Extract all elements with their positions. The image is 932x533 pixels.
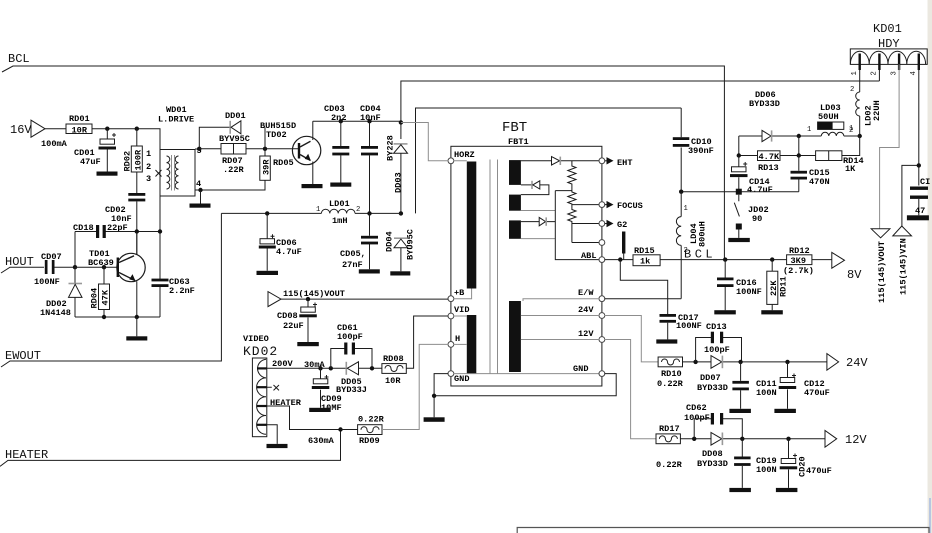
capacitor FBT internal bar xyxy=(622,232,625,254)
svg-text:24V: 24V xyxy=(846,356,868,370)
ground KD02 xyxy=(267,444,288,448)
svg-text:1N4148: 1N4148 xyxy=(40,308,71,318)
svg-text:1K: 1K xyxy=(845,164,856,174)
svg-text:47K: 47K xyxy=(101,289,111,305)
node junction CD11 xyxy=(738,360,742,364)
svg-text:LD01: LD01 xyxy=(329,199,350,209)
svg-text:22K: 22K xyxy=(769,280,779,296)
winding FBT EHT segment 1 xyxy=(509,160,521,185)
ground WD01 pin4 xyxy=(200,190,202,204)
svg-text:RD11: RD11 xyxy=(779,276,789,297)
svg-text:CD07: CD07 xyxy=(41,252,62,262)
node junction CD12 xyxy=(785,360,789,364)
svg-text:RD04: RD04 xyxy=(90,288,100,309)
svg-text:100NF: 100NF xyxy=(676,321,702,331)
svg-text:4: 4 xyxy=(910,71,918,75)
winding FBT EHT segment 2 xyxy=(509,195,521,211)
resistor RD01 xyxy=(66,124,92,134)
wire G2 tap xyxy=(572,223,602,225)
svg-text:.22R: .22R xyxy=(223,165,244,175)
node junction RD13/CD14 xyxy=(737,153,741,157)
svg-text:47uF: 47uF xyxy=(80,157,101,167)
ground edge cap xyxy=(907,215,929,220)
svg-text:BYD33D: BYD33D xyxy=(697,459,728,469)
capacitor CD06 xyxy=(267,213,274,270)
svg-text:4: 4 xyxy=(196,179,201,189)
node junction TD02 base xyxy=(263,147,267,151)
wire GND internal xyxy=(454,373,600,375)
jumper JD02 xyxy=(736,189,742,195)
resistor RD10 (fusible) xyxy=(658,357,682,367)
svg-text:ABL: ABL xyxy=(581,251,596,261)
node junction CD62 left xyxy=(692,437,696,441)
node junction HOUT/CD18/DD02 xyxy=(73,265,77,269)
svg-text:1: 1 xyxy=(146,149,151,159)
node EHT pin xyxy=(599,158,605,164)
svg-text:BYU95C: BYU95C xyxy=(406,229,416,260)
node junction CD20 xyxy=(786,437,790,441)
svg-text:RD17: RD17 xyxy=(659,424,680,434)
svg-text:2: 2 xyxy=(850,86,854,94)
svg-text:470N: 470N xyxy=(809,177,830,187)
svg-text:CD62: CD62 xyxy=(686,403,707,413)
wire top node rail xyxy=(313,120,401,122)
wire pin5 to RD07 xyxy=(199,148,298,150)
node junction RD13/CD15 xyxy=(797,153,801,157)
svg-text:RD02: RD02 xyxy=(123,151,133,172)
svg-text:470uF: 470uF xyxy=(804,388,830,398)
node junction RD04 top xyxy=(102,265,106,269)
svg-text:115(145)VOUT: 115(145)VOUT xyxy=(877,241,887,303)
svg-text:1mH: 1mH xyxy=(332,216,347,226)
node junction LD02/LD03/RD14 xyxy=(858,134,862,138)
node junction emitter/ground xyxy=(135,315,139,319)
capacitor CD09 xyxy=(321,368,329,408)
node 16V input xyxy=(31,120,45,137)
node junction RD04 bottom xyxy=(102,315,106,319)
svg-text:8V: 8V xyxy=(847,268,862,282)
diode DD05 BYD33J xyxy=(345,362,347,375)
wire TD02 emitter xyxy=(312,162,314,185)
ground TD01 xyxy=(136,317,138,336)
capacitor CD01 xyxy=(106,129,108,139)
resistor RD05 xyxy=(260,156,271,180)
svg-text:390nF: 390nF xyxy=(688,146,714,156)
capacitor CD08 xyxy=(308,299,317,342)
wire LD01 node riser xyxy=(416,108,682,213)
node junction CD09 xyxy=(318,366,322,370)
node 115(145)VIN xyxy=(893,226,912,236)
ground CD12 xyxy=(774,409,796,413)
resistor FBT focus divider xyxy=(568,161,576,243)
svg-text:+B: +B xyxy=(454,288,464,298)
svg-text:RD01: RD01 xyxy=(69,114,90,124)
ground CD17 xyxy=(656,339,677,343)
capacitor CD20 xyxy=(789,439,798,488)
svg-text:BC639: BC639 xyxy=(88,258,114,268)
svg-text:HORZ: HORZ xyxy=(454,150,475,160)
wire TD01 emitter xyxy=(136,281,138,317)
svg-text:100pF: 100pF xyxy=(704,345,730,355)
svg-text:BYD33D: BYD33D xyxy=(697,383,728,393)
node FOCUS pin xyxy=(599,202,605,208)
wire KD01 pin2 stub xyxy=(878,70,880,81)
capacitor CD16 xyxy=(724,260,726,311)
svg-text:115(145)VOUT: 115(145)VOUT xyxy=(283,289,345,299)
ground RD11 xyxy=(761,310,783,314)
svg-text:BYD33J: BYD33J xyxy=(336,385,367,395)
wire VID internal xyxy=(454,315,467,317)
ground CD11 xyxy=(729,409,751,413)
svg-text:4.7uF: 4.7uF xyxy=(747,185,773,195)
svg-text:100N: 100N xyxy=(756,465,777,475)
wire DD03 node to KD01 xyxy=(401,81,880,139)
wire KD01 pin1 to LD02 xyxy=(859,70,861,92)
diode FBT D1 xyxy=(552,157,560,165)
resistor RD07 xyxy=(221,144,246,155)
svg-text:100pF: 100pF xyxy=(684,413,710,423)
wire divider bottom tap xyxy=(572,242,602,244)
svg-text:100NF: 100NF xyxy=(736,287,762,297)
svg-text:800uH: 800uH xyxy=(698,221,708,247)
wire ABL to CD17 xyxy=(620,260,667,314)
svg-text:39R: 39R xyxy=(262,159,272,175)
wire RD13/RD14 row xyxy=(739,136,860,156)
svg-text:22uF: 22uF xyxy=(283,321,304,331)
node junction CD13 left xyxy=(693,360,697,364)
node junction RD11 xyxy=(770,257,774,261)
svg-text:1: 1 xyxy=(316,206,320,214)
svg-text:0.22R: 0.22R xyxy=(656,460,683,470)
svg-text:KD02: KD02 xyxy=(243,344,278,359)
capacitor CD15 xyxy=(798,156,800,192)
node junction CD18/collector xyxy=(135,229,139,233)
svg-text:RD09: RD09 xyxy=(359,436,380,446)
svg-text:FBT: FBT xyxy=(502,120,527,136)
capacitor CD14 xyxy=(739,156,747,192)
node junction CD18/CD63 xyxy=(158,229,162,233)
svg-text:BYV95C: BYV95C xyxy=(219,134,250,144)
svg-text:16V: 16V xyxy=(10,123,32,137)
svg-text:22UH: 22UH xyxy=(872,100,882,121)
capacitor CD10 xyxy=(680,108,682,192)
connector KD02 heater pin X xyxy=(267,385,279,390)
svg-text:RD08: RD08 xyxy=(383,354,404,364)
svg-text:47: 47 xyxy=(915,206,925,216)
node junction DD03/DD04/LD01 xyxy=(399,211,403,215)
node junction GND bus xyxy=(432,394,436,398)
resistor RD11 xyxy=(771,260,773,311)
title box bottom xyxy=(517,528,929,533)
ground DD04 xyxy=(390,271,410,275)
svg-text:100R: 100R xyxy=(133,149,143,170)
wire E/W internal xyxy=(523,299,599,301)
svg-text:100NF: 100NF xyxy=(34,277,60,287)
svg-text:BCL: BCL xyxy=(684,248,716,262)
wire 12V internal xyxy=(521,339,599,341)
svg-text:2: 2 xyxy=(849,127,853,135)
svg-text:2: 2 xyxy=(146,162,151,172)
svg-text:100mA: 100mA xyxy=(41,139,68,149)
wire 24V feed xyxy=(605,316,659,362)
svg-text:90: 90 xyxy=(752,214,762,224)
ground CD09 xyxy=(309,408,331,412)
svg-text:BYD33D: BYD33D xyxy=(749,99,780,109)
svg-text:630mA: 630mA xyxy=(308,436,335,446)
node 115(145)VOUT feed xyxy=(268,292,281,307)
svg-text:100N: 100N xyxy=(756,388,777,398)
wire EHT winding cold end xyxy=(521,211,555,239)
svg-text:100pF: 100pF xyxy=(337,332,363,342)
wire +B internal xyxy=(454,289,472,299)
svg-text:0.22R: 0.22R xyxy=(358,415,385,425)
svg-text:200V: 200V xyxy=(272,359,293,369)
capacitor CD17 xyxy=(660,314,677,317)
wire 16V rail xyxy=(45,128,159,130)
wire 24V internal xyxy=(521,315,599,317)
wire DD05 to RD08 xyxy=(359,367,382,369)
wire HOUT lead xyxy=(1,267,44,273)
wire TD01 bottom rail xyxy=(75,316,160,318)
ground CD08 xyxy=(297,342,319,346)
svg-text:27nF: 27nF xyxy=(342,260,363,270)
svg-text:2: 2 xyxy=(871,71,879,75)
wire RD09 to H xyxy=(382,344,448,429)
diode DD03 BY228 xyxy=(399,120,403,124)
node internal cap pin xyxy=(599,240,605,246)
svg-text:1: 1 xyxy=(684,205,688,213)
svg-text:CD08: CD08 xyxy=(277,311,298,321)
svg-text:DD01: DD01 xyxy=(225,111,246,121)
capacitor CD19 xyxy=(741,439,743,488)
wire KD01 pin3 to VOUT xyxy=(880,64,900,228)
svg-text:TD02: TD02 xyxy=(266,130,287,140)
diode DD07 BYD33D xyxy=(711,356,722,369)
svg-text:50UH: 50UH xyxy=(818,112,839,122)
wire EWOUT net xyxy=(1,213,221,367)
svg-text:10R: 10R xyxy=(72,126,88,136)
wire +B rail xyxy=(281,298,448,300)
svg-text:2.2nF: 2.2nF xyxy=(169,286,195,296)
svg-text:1: 1 xyxy=(851,71,859,75)
svg-text:RD13: RD13 xyxy=(758,163,779,173)
core FBT xyxy=(490,160,498,374)
svg-text:WD01: WD01 xyxy=(166,105,187,115)
wire 16V drop to CD63 xyxy=(159,129,161,279)
resistor RD02 xyxy=(136,129,138,193)
svg-text:BCL: BCL xyxy=(8,52,30,66)
svg-text:G2: G2 xyxy=(617,220,627,230)
svg-text:GND: GND xyxy=(454,374,469,384)
svg-text:CI: CI xyxy=(920,177,930,187)
node junction heater/RD09 xyxy=(338,427,342,431)
node junction 16V/CD01 xyxy=(105,127,109,131)
wire WD01 pin5 node xyxy=(195,127,265,190)
wire TD02 collector xyxy=(312,121,314,140)
node junction WD01 pin4 xyxy=(198,188,202,192)
wire tuning row xyxy=(681,191,799,193)
svg-text:4.7uF: 4.7uF xyxy=(276,247,302,257)
capacitor CD02 xyxy=(128,193,145,196)
node junction CD19 xyxy=(740,437,744,441)
node junction pin4/cap xyxy=(917,163,921,167)
node junction CD10/LD04 xyxy=(679,190,683,194)
node 8V output xyxy=(832,252,845,268)
resistor RD14 xyxy=(816,151,842,161)
node 115(145)VOUT return xyxy=(871,229,890,238)
svg-text:KD01: KD01 xyxy=(873,22,902,36)
svg-text:3: 3 xyxy=(890,71,898,75)
wire 12V row xyxy=(680,438,825,440)
wire KD01 pin4 to VIN xyxy=(902,64,919,226)
svg-text:H: H xyxy=(455,334,460,344)
svg-text:1: 1 xyxy=(807,126,811,134)
wire BCL top rail xyxy=(2,66,724,260)
diode DD08 BYD33D xyxy=(711,433,722,446)
resistor RD13 xyxy=(758,151,781,161)
svg-text:3K9: 3K9 xyxy=(791,256,806,266)
ground CD01 xyxy=(97,172,118,176)
node junction CD08 xyxy=(306,297,310,301)
wire 12V feed xyxy=(605,340,657,439)
svg-text:3: 3 xyxy=(146,174,151,184)
ground JD02 xyxy=(728,238,750,242)
ground CD06 xyxy=(257,271,279,275)
ground TD02 xyxy=(302,184,323,188)
wire ABL row xyxy=(605,259,832,261)
svg-text:12V: 12V xyxy=(578,329,594,339)
node junction CD61 right xyxy=(370,366,374,370)
svg-text:(2.7k): (2.7k) xyxy=(783,266,814,276)
wire E/W to LD04 xyxy=(605,298,682,300)
ground CD20 xyxy=(776,488,798,492)
ground CD19 xyxy=(729,488,751,492)
node 24V output xyxy=(827,354,839,371)
winding FBT secondary xyxy=(509,301,521,372)
svg-text:VID: VID xyxy=(454,305,469,315)
wire heater pin4 ground xyxy=(267,425,277,444)
svg-text:1k: 1k xyxy=(640,257,650,267)
svg-text:4.7K: 4.7K xyxy=(759,152,780,162)
winding FBT primary bottom xyxy=(467,315,477,374)
svg-text:12V: 12V xyxy=(845,433,867,447)
ground GND bus xyxy=(433,396,435,418)
svg-text:470uF: 470uF xyxy=(806,466,832,476)
svg-text:RD10: RD10 xyxy=(661,369,682,379)
svg-text:10R: 10R xyxy=(385,376,401,386)
node junction 16V/RD02 xyxy=(135,127,139,131)
resistor RD04 xyxy=(103,267,105,317)
diode FBT D2 xyxy=(521,185,549,195)
wire HEATER net xyxy=(0,430,341,467)
node junction pin5 xyxy=(197,147,201,151)
svg-text:DD04: DD04 xyxy=(385,231,395,252)
svg-text:FOCUS: FOCUS xyxy=(617,201,643,211)
svg-text:24V: 24V xyxy=(578,305,594,315)
svg-text:0.22R: 0.22R xyxy=(657,379,684,389)
capacitor CD11 xyxy=(740,362,742,409)
ground CD16 xyxy=(714,310,736,314)
svg-text:BY228: BY228 xyxy=(386,135,396,161)
svg-text:CD13: CD13 xyxy=(706,322,727,332)
svg-text:DD08: DD08 xyxy=(702,449,723,459)
wire 200V rail xyxy=(267,367,347,369)
svg-text:DD07: DD07 xyxy=(700,373,721,383)
wire 24V row xyxy=(683,361,827,363)
ground CD05 xyxy=(359,269,380,273)
svg-text:DD03: DD03 xyxy=(394,172,404,193)
wire FOCUS tap xyxy=(572,204,602,206)
svg-text:115(145)VIN: 115(145)VIN xyxy=(899,238,909,295)
wire GND bus under FBT xyxy=(434,374,616,396)
svg-text:E/W: E/W xyxy=(578,288,594,298)
svg-text:FBT1: FBT1 xyxy=(508,137,529,147)
svg-text:2: 2 xyxy=(356,206,360,214)
diode FBT D3 xyxy=(521,221,555,223)
node junction LD01/CD04 xyxy=(367,211,371,215)
svg-text:L.DRIVE: L.DRIVE xyxy=(158,115,194,125)
svg-text:VIDEO: VIDEO xyxy=(243,334,269,344)
wire RD08 to VID xyxy=(406,316,448,368)
capacitor CD12 xyxy=(788,362,797,409)
wire H internal xyxy=(454,343,467,345)
svg-text:GND: GND xyxy=(573,364,588,374)
wire EHT top line xyxy=(521,160,602,162)
node G2 pin xyxy=(599,221,605,227)
svg-text:CD05,: CD05, xyxy=(340,249,366,259)
node junction DD06/LD03 xyxy=(797,134,801,138)
svg-text:EHT: EHT xyxy=(617,158,632,168)
winding FBT EHT segment 3 xyxy=(509,220,521,238)
svg-text:RD05: RD05 xyxy=(273,158,294,168)
node junction CD61 left xyxy=(329,366,333,370)
wire TD01 collector xyxy=(136,232,138,255)
ground CD03 xyxy=(330,183,351,187)
wire HORZ feed xyxy=(401,123,467,161)
node 12V output xyxy=(825,431,837,448)
wire base TD01 xyxy=(75,266,117,268)
node junction LD01/CD06 xyxy=(265,211,269,215)
node junction ABL branch xyxy=(618,257,622,261)
winding FBT primary top xyxy=(467,162,477,289)
